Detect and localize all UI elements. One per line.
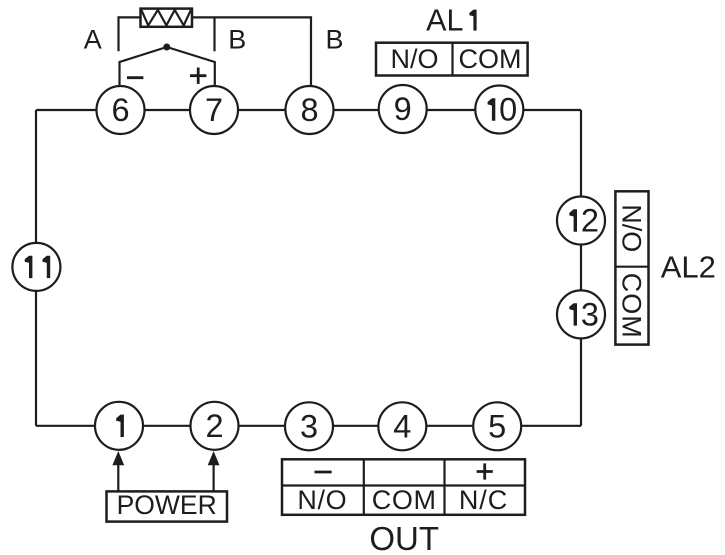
svg-text:N/O: N/O (390, 44, 438, 74)
svg-text:COM: COM (616, 273, 646, 339)
wire: junction to terminal 7 (167, 47, 215, 86)
svg-text:N/O: N/O (297, 485, 347, 515)
svg-text:N/O: N/O (616, 204, 646, 252)
svg-text:B: B (228, 25, 246, 55)
wire: right rail upper vertical (580, 110, 582, 197)
svg-text:3: 3 (581, 297, 599, 333)
terminal 12 (557, 197, 605, 245)
terminal 4 (378, 402, 426, 450)
wire: terminal 1 to 2 (143, 425, 191, 427)
POWER box (107, 490, 228, 522)
terminal 11 (12, 243, 60, 291)
wire: terminal 2 to 3 (239, 425, 286, 427)
wire: left rail upper vertical (35, 110, 37, 243)
wire: bottom-right horizontal (521, 425, 581, 427)
svg-text:POWER: POWER (117, 490, 217, 520)
svg-text:0: 0 (499, 92, 517, 128)
terminal 9 (379, 85, 427, 133)
wire: terminal 4 to 5 (426, 425, 473, 427)
svg-text:A: A (84, 25, 102, 55)
terminal 7 (190, 86, 238, 134)
svg-text:COM: COM (459, 44, 522, 74)
RTD sensor element (resistor with zigzag) (141, 9, 193, 27)
svg-text:7: 7 (205, 92, 223, 128)
terminal 13 (557, 290, 605, 338)
svg-text:6: 6 (111, 92, 129, 128)
svg-text:AL2: AL2 (661, 250, 716, 285)
svg-text:3: 3 (300, 409, 318, 445)
wire: B stub to terminal 7 (213, 17, 215, 51)
wire: terminal 7 to 8 (239, 109, 286, 111)
wire: terminal 9 to 10 (427, 109, 476, 111)
polarity label plus (190, 68, 206, 84)
wire: terminal 8 to 9 (334, 109, 379, 111)
svg-text:OUT: OUT (369, 520, 439, 555)
OUT plus label (477, 463, 493, 479)
terminal 1 (95, 402, 143, 450)
svg-text:N/C: N/C (459, 485, 508, 515)
wire: left rail lower vertical (35, 291, 37, 426)
AL2 contact box (615, 191, 648, 344)
wire: bottom-left horizontal (36, 425, 95, 427)
wire: terminal 10 to right rail (523, 109, 581, 111)
svg-text:4: 4 (393, 409, 411, 445)
svg-text:COM: COM (372, 485, 437, 515)
wire: terminal 6 to 7 (145, 109, 190, 111)
wire: right rail lower vertical (580, 338, 582, 425)
terminal 6 (97, 86, 145, 134)
wire: terminal 3 to 4 (333, 425, 378, 427)
wire: resistor left lead (119, 17, 141, 51)
terminal 2 (191, 402, 239, 450)
svg-text:B: B (325, 25, 343, 55)
svg-text:2: 2 (581, 203, 599, 239)
svg-text:5: 5 (488, 409, 506, 445)
terminal 5 (473, 402, 521, 450)
terminal 3 (285, 402, 333, 450)
wire: left rail top horizontal (36, 109, 97, 111)
wire: junction to terminal 6 (120, 47, 167, 86)
svg-text:AL: AL (426, 4, 463, 38)
terminal 10 (475, 86, 523, 134)
svg-text:2: 2 (205, 408, 223, 444)
wire: terminal 12 to 13 (580, 245, 582, 291)
svg-text:9: 9 (394, 91, 412, 127)
node: sensor junction dot (163, 44, 170, 51)
OUT minus label (315, 471, 332, 474)
terminal 8 (286, 86, 334, 134)
wire: resistor right lead to terminal 8 (192, 17, 311, 85)
arrow to terminal 2 (208, 451, 220, 491)
arrow to terminal 1 (112, 451, 124, 491)
svg-text:8: 8 (300, 92, 318, 128)
AL1 contact box (376, 43, 528, 76)
polarity label minus (127, 76, 143, 79)
OUT contact table (282, 459, 525, 515)
